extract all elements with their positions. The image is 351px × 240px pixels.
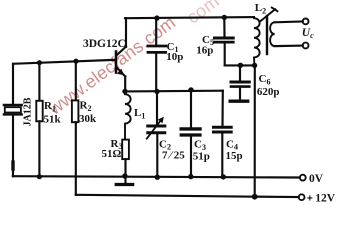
svg-text:51k: 51k [44,114,62,126]
transformer L2 secondary [270,22,275,46]
svg-text:51Ω: 51Ω [102,148,122,160]
svg-text:www.elecfans.com: www.elecfans.com [44,12,179,119]
svg-text:C6: C6 [259,73,271,86]
resistor R3 [122,140,129,183]
wire crystal top [12,64,14,104]
label C1 10p [166,41,183,63]
transformer adjust arrow [260,8,277,22]
capacitor C4 [214,91,232,177]
label R3 51ohm [102,138,123,160]
node R3-0V junction [122,173,127,178]
terminal Uc top [303,19,309,25]
capacitor C2 variable [147,92,165,178]
node right column +12V junction [252,194,258,200]
terminal 0V [300,175,306,181]
wire emitter down [124,76,126,91]
svg-text:15p: 15p [226,150,243,162]
wire top rail [125,17,254,18]
inductor L1 [125,91,131,139]
svg-text:com: com [183,0,223,28]
svg-text:30k: 30k [79,113,97,125]
label R2 30k [79,100,97,125]
transformer L2 primary [254,17,260,65]
svg-text:R2: R2 [80,100,92,113]
svg-text:L2: L2 [255,2,266,15]
capacitor C5 [215,17,234,65]
svg-text:51p: 51p [193,151,210,163]
node base-R1 junction [37,60,42,65]
resistor R2 [72,61,79,195]
node emitter rail junction [122,89,127,94]
label C6 620p [257,73,280,98]
svg-text:L1: L1 [134,107,145,120]
wire right column to +12V [254,65,256,197]
svg-text:JA12B: JA12B [23,97,34,126]
transformer L2 core [266,16,268,54]
wire 0V rail [13,176,300,177]
node rail C3 junction [188,87,193,92]
node C2-0V junction [155,175,160,180]
node R1-0V junction [37,174,42,179]
label C2 7/25 [159,138,185,161]
svg-text:0V: 0V [309,173,324,185]
svg-text:+ 12V: + 12V [307,192,336,204]
ground below C6 [230,99,248,102]
node C3-0V junction [188,174,193,179]
node top rail C5 junction [222,15,227,20]
wire +12V rail [76,195,299,197]
wire collector to top rail [125,18,127,47]
svg-text:10p: 10p [166,51,183,63]
svg-text:16p: 16p [196,45,213,57]
wire crystal bottom [12,116,14,177]
node primary bottom junction [252,63,257,68]
svg-text:7 ∕ 25: 7 ∕ 25 [162,150,185,162]
node base-R2 junction [73,59,78,64]
capacitor C1 [148,18,166,91]
capacitor C3 [181,90,200,177]
terminal +12V [299,194,305,200]
wire emitter rail [125,90,223,93]
wire base rail [13,60,116,64]
capacitor C6 [231,65,249,100]
watermark www.elecfans.com [44,0,223,119]
wire secondary top to terminal [275,20,303,23]
terminal Uc bottom [303,43,309,49]
node C6 junction [238,63,243,68]
crystal JA12B [4,105,22,114]
node top rail C1 junction [154,15,159,20]
label C3 51p [193,139,210,163]
svg-text:620p: 620p [257,86,280,98]
ground below R3 [116,183,133,186]
wire secondary bottom to terminal [275,45,303,48]
svg-text:3DG12C: 3DG12C [83,38,126,50]
resistor R1 [36,63,42,177]
label C5 16p [196,34,214,57]
wire C5 to primary bottom [225,64,255,66]
node C4-0V junction [221,174,226,179]
transistor Q1 3DG12C [116,47,126,77]
node rail C2 junction [154,89,159,94]
label R1 51k [44,100,62,125]
svg-text:Uc: Uc [302,27,314,40]
label C4 15p [226,139,243,163]
